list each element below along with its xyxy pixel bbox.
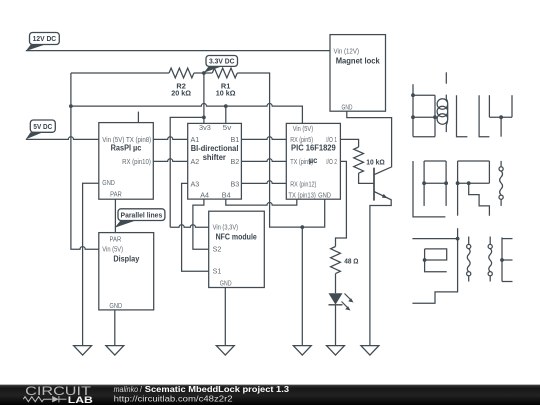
svg-text:10 kΩ: 10 kΩ: [216, 89, 236, 98]
svg-text:5v: 5v: [223, 123, 232, 132]
svg-text:NFC module: NFC module: [216, 232, 257, 242]
svg-text:Vin (3,3V): Vin (3,3V): [213, 223, 239, 232]
svg-text:Magnet lock: Magnet lock: [336, 56, 380, 66]
svg-text:RX (pin12): RX (pin12): [290, 179, 316, 188]
svg-text:http://circuitlab.com/c48z2r2: http://circuitlab.com/c48z2r2: [114, 395, 234, 404]
svg-text:GND: GND: [318, 191, 331, 200]
svg-text:10 kΩ: 10 kΩ: [366, 158, 384, 167]
svg-text:20 kΩ: 20 kΩ: [171, 89, 191, 98]
svg-text:S1: S1: [213, 267, 222, 276]
svg-text:48 Ω: 48 Ω: [344, 256, 358, 265]
svg-text:PAR: PAR: [110, 189, 122, 198]
svg-text:TX (pin13): TX (pin13): [288, 191, 316, 200]
svg-text:µc: µc: [309, 155, 318, 165]
svg-text:Parallel lines: Parallel lines: [121, 210, 163, 219]
svg-text:S2: S2: [213, 245, 222, 254]
svg-text:Vin (12V): Vin (12V): [334, 47, 360, 56]
svg-text:PAR: PAR: [110, 235, 122, 244]
svg-text:malinko: malinko: [114, 385, 139, 394]
svg-text:3v3: 3v3: [199, 123, 211, 132]
svg-text:RX (pin10): RX (pin10): [122, 157, 151, 166]
svg-text:LAB: LAB: [68, 395, 93, 405]
svg-text:B2: B2: [231, 157, 240, 166]
svg-text:5V DC: 5V DC: [33, 122, 52, 131]
svg-text:A4: A4: [200, 190, 209, 199]
svg-text:B4: B4: [222, 190, 231, 199]
svg-text:GND: GND: [342, 102, 353, 111]
svg-text:GND: GND: [109, 301, 122, 310]
svg-text:Vin (5V): Vin (5V): [293, 124, 313, 133]
svg-text:shifter: shifter: [203, 152, 227, 162]
svg-text:A3: A3: [191, 179, 200, 188]
svg-text:Vin (5V): Vin (5V): [102, 245, 123, 254]
svg-text:Display: Display: [113, 254, 139, 264]
svg-text:PIC 16F1829: PIC 16F1829: [291, 143, 336, 153]
svg-text:I/O 2: I/O 2: [326, 157, 337, 166]
svg-text:3.3V DC: 3.3V DC: [209, 57, 235, 66]
svg-text:GND: GND: [102, 178, 115, 187]
svg-text:B3: B3: [231, 179, 240, 188]
svg-text:GND: GND: [220, 279, 232, 288]
svg-text:12V DC: 12V DC: [33, 34, 57, 43]
svg-text:A2: A2: [191, 157, 200, 166]
svg-text:Scematic MbeddLock project 1.3: Scematic MbeddLock project 1.3: [145, 385, 290, 394]
svg-text:RasPI µc: RasPI µc: [111, 142, 142, 152]
